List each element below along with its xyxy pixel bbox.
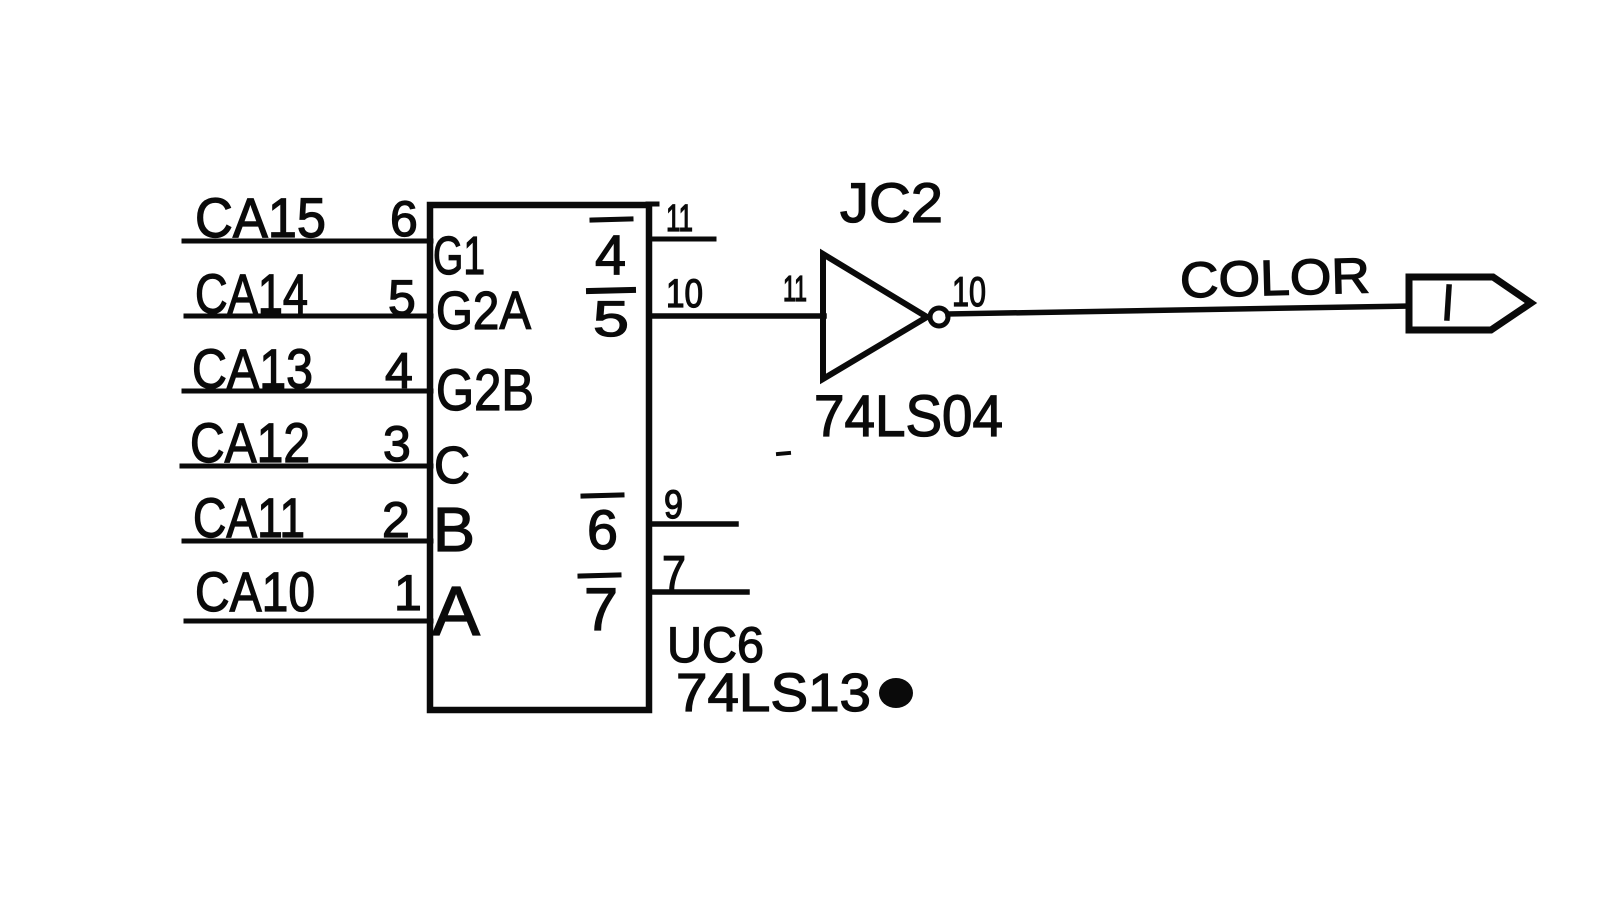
wire inverter output to connector (COLOR net) [948,306,1409,314]
part number 74LS138 [676,663,913,723]
svg-text:10: 10 [952,268,986,315]
svg-text:4: 4 [595,223,626,286]
svg-text:A: A [432,572,480,650]
svg-text:74LS04: 74LS04 [814,384,1003,449]
output label Y6 (overbar 6) [583,495,622,561]
stray ink mark [778,453,789,454]
decoder UC6 74LS138 body [430,204,657,710]
svg-text:11: 11 [666,198,693,240]
inverter output bubble [930,308,948,326]
svg-text:COLOR: COLOR [1179,248,1370,309]
connector pennant symbol [1409,277,1531,330]
wire CA11 to pin 2 [184,539,431,544]
svg-text:CA10: CA10 [195,560,315,623]
wire CA10 to pin 1 [186,619,431,624]
svg-text:10: 10 [666,272,703,316]
inverter JC2 triangle [823,254,927,379]
wire Y7 stub pin 7 [650,589,747,595]
wire CA14 to pin 5 [186,314,431,319]
svg-text:G1: G1 [433,226,485,286]
svg-text:B: B [433,496,475,565]
connector pin label 1 [1447,287,1449,318]
output label Y5 (overbar 5) [589,290,633,347]
wire Y6 stub pin 9 [650,521,736,527]
svg-text:6: 6 [587,498,618,561]
svg-text:G2B: G2B [436,358,534,423]
output label Y4 (overbar 4) [592,219,631,286]
wire Y4 stub pin 11 [650,237,714,242]
svg-text:JC2: JC2 [840,171,943,234]
wire CA13 to pin 4 [184,389,431,394]
wire CA15 to pin 6 [184,239,431,244]
svg-text:G2A: G2A [436,281,531,341]
svg-text:74LS13: 74LS13 [676,663,871,723]
svg-text:7: 7 [584,576,618,643]
svg-text:1: 1 [394,565,422,621]
svg-text:5: 5 [593,291,629,347]
svg-text:9: 9 [664,483,683,527]
wire Y5 pin 10 to inverter input [650,313,824,319]
svg-text:11: 11 [783,268,807,309]
wire CA12 to pin 3 [182,464,431,469]
svg-text:C: C [434,437,470,495]
output label Y7 (overbar 7) [580,575,619,643]
